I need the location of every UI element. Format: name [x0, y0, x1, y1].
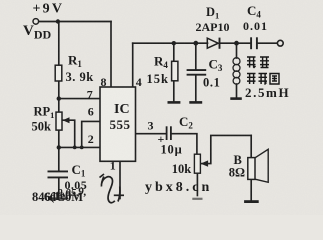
ground R4: [168, 101, 181, 104]
node junction rail/R4: [172, 41, 176, 45]
label garbled scan text: [32, 186, 87, 204]
capacitor C2 plates: [167, 126, 171, 140]
resistor R1: [55, 65, 62, 81]
node junction rail/C3: [193, 41, 198, 46]
wire R1 bottom lead: [58, 81, 60, 99]
IC U1 555 timer box: [100, 87, 136, 161]
wire C1 top lead: [58, 147, 60, 171]
wire left rail mid (R1 junction to RP1): [58, 99, 60, 113]
wire pin1 drop: [119, 161, 121, 198]
capacitor C3 plates: [187, 70, 207, 75]
ground choke: [230, 97, 242, 100]
node junction R1/pin7: [57, 96, 61, 100]
wire C4 to output terminal: [257, 42, 278, 44]
wire pin4 drop: [132, 43, 134, 87]
ground pot 10k (faint, under watermark): [192, 198, 202, 200]
potentiometer RP1 body: [56, 112, 62, 130]
paper grain overlay: [0, 0, 1, 1]
wire RP1 bottom lead: [58, 130, 60, 147]
wire mid rail to D1 anode: [133, 42, 208, 44]
speaker B cone: [255, 149, 268, 182]
node junction +9V/R1: [56, 19, 60, 23]
node junction wiper dot: [205, 162, 208, 165]
wire R4 top lead: [173, 43, 175, 61]
terminal RF output: [277, 40, 283, 46]
wire R4 bottom lead: [173, 81, 175, 101]
wire D1 cathode to C4: [221, 42, 252, 44]
ground pin1 tail cross: [114, 187, 124, 202]
wire pot wiper: [201, 135, 251, 163]
wire speaker bottom lead: [250, 179, 252, 200]
wire C2 right lead to pot: [171, 134, 197, 155]
wire speaker top lead: [250, 135, 252, 157]
wire choke top lead: [236, 43, 238, 58]
wire C3 top lead: [195, 43, 197, 69]
wire pin2 junction line: [59, 146, 100, 148]
ground C1 (buried in garbled text): [52, 197, 66, 199]
inductor RF choke coil: [233, 58, 240, 85]
node junction pin6/pin2: [80, 146, 84, 150]
capacitor C4 plates: [251, 37, 257, 49]
ground pin1 squiggle: [100, 174, 115, 203]
wire pin3: [136, 133, 167, 135]
potentiometer 10k wiper arrow: [201, 160, 209, 166]
speaker B coil box: [248, 158, 255, 180]
terminal VDD input: [33, 19, 39, 25]
wire pot bottom lead: [196, 173, 198, 195]
wire +9V rail: [39, 21, 112, 23]
potentiometer 10k body: [194, 154, 200, 173]
wire RP1 wiper to junction: [63, 120, 75, 147]
wire C3 bottom lead: [195, 75, 197, 101]
wire choke bottom lead: [236, 84, 238, 97]
potentiometer RP1 wiper arrow: [63, 117, 70, 123]
ground C3: [189, 101, 202, 104]
wire pin6: [82, 121, 100, 147]
node junction wiper/pin2: [73, 146, 77, 150]
label Chinese she-pin (RF) fake glyphs: [247, 57, 269, 68]
wire pin7: [59, 98, 100, 100]
node junction rail/choke: [234, 41, 239, 46]
wire left rail top (to R1): [58, 22, 60, 66]
diode D1: [207, 38, 219, 49]
node junction left rail pin2: [57, 145, 61, 149]
wire C1 bottom lead: [58, 178, 60, 198]
ground speaker: [244, 200, 259, 203]
wire pin8 drop: [110, 22, 112, 88]
resistor R4: [172, 61, 178, 81]
capacitor C1 plates: [48, 171, 69, 177]
label Chinese e-liu-quan (choke coil) fake glyphs: [247, 74, 279, 85]
